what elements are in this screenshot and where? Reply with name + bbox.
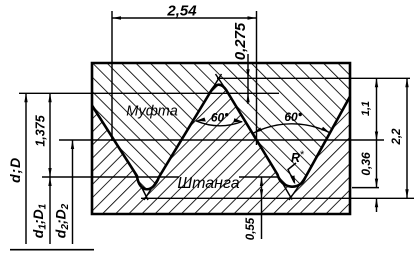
- degree dot right: [299, 113, 302, 116]
- arrow 0,275 lower: [246, 93, 249, 102]
- svg-text:Муфта: Муфта: [126, 104, 178, 120]
- dimension 0,36 tail lower: [376, 198, 378, 212]
- svg-text:0,275: 0,275: [232, 22, 249, 60]
- arrow 0,55 upper: [260, 177, 263, 186]
- svg-text:1,1: 1,1: [360, 101, 372, 116]
- svg-text:60: 60: [211, 111, 225, 125]
- arrow 0,36 lower: [375, 198, 378, 207]
- svg-text:d;D: d;D: [7, 157, 23, 183]
- svg-text:*: *: [300, 149, 305, 161]
- thread profile thick outline: [92, 85, 350, 190]
- svg-text:0,55: 0,55: [245, 217, 257, 240]
- arrow 2,54 right: [248, 16, 257, 20]
- arrow 60 deg right arc right end: [321, 127, 329, 133]
- wire right groove apex flank extension right: [289, 175, 307, 200]
- svg-text:2,54: 2,54: [166, 3, 197, 20]
- dimension d;D line: [25, 93, 27, 244]
- arrow 60 deg right arc left end: [254, 127, 263, 133]
- arrow 2,2 bottom: [405, 189, 408, 198]
- node pitch line d2;D2 level: [59, 139, 384, 141]
- arrow d;D: [24, 93, 27, 102]
- arrow 1,1 bottom: [375, 132, 378, 141]
- node root truncation line d1;D1 level right part: [239, 176, 278, 178]
- wire left groove apex flank extension right: [144, 173, 162, 200]
- dimension 1,375 and d1;D1 shared line: [49, 93, 51, 244]
- arrow 60 deg left arc right end: [233, 118, 242, 122]
- degree dot left: [225, 113, 228, 116]
- arrow 2,54 left: [112, 16, 121, 20]
- wire mid tooth apex flank extension left: [208, 74, 222, 97]
- wire mid tooth apex flank extension right: [216, 74, 229, 94]
- svg-text:2,2: 2,2: [391, 128, 403, 146]
- arrow 1,1 top: [375, 78, 378, 87]
- wire left groove apex flank extension left: [134, 172, 148, 200]
- dimension 2,54 right extension line: [256, 11, 258, 145]
- node sharp root line: [141, 197, 414, 199]
- node crest flat line d;D level: [19, 92, 279, 94]
- arrow 0,275 upper: [246, 69, 249, 78]
- svg-text:Штанга: Штанга: [177, 175, 239, 192]
- arrow 1,375 bottom: [48, 168, 51, 177]
- angle arc 60 deg right: [254, 124, 330, 133]
- coupling body Муфта hatched section: [92, 63, 350, 189]
- wire right groove apex flank extension left: [276, 171, 293, 200]
- svg-text:0,36: 0,36: [359, 152, 373, 176]
- dimension 2,2 line: [406, 78, 408, 198]
- arrow 0,36 upper: [375, 179, 378, 188]
- rod block outline: [92, 97, 350, 215]
- angle arc 60 deg left: [196, 121, 242, 126]
- arrow R leader: [291, 175, 296, 184]
- coupling block outline: [92, 63, 350, 106]
- arrow 0,55 lower: [260, 189, 263, 198]
- node thread axis centerline: [10, 249, 94, 251]
- node root arc bottom tangent line: [352, 187, 379, 189]
- node sharp crest line: [217, 77, 410, 79]
- node root truncation line d1;D1 level left part: [42, 176, 179, 178]
- arrow 1,375 top: [48, 93, 51, 102]
- svg-text:R: R: [291, 151, 300, 165]
- dimension d2;D2 line: [72, 140, 74, 244]
- svg-text:1,375: 1,375: [34, 114, 48, 146]
- dimension 0,55 line: [261, 177, 263, 239]
- dimension 1,1 and 0,36 shared line upper: [376, 78, 378, 187]
- arrow 60 deg left arc left end: [196, 118, 206, 122]
- arrow d1;D1: [48, 177, 51, 186]
- dimension 0,275 line: [247, 54, 249, 104]
- dimension 2,54 line: [112, 17, 257, 19]
- svg-text:60: 60: [284, 110, 298, 124]
- dimension 2,54 left extension line: [111, 11, 113, 141]
- arrow d2;D2: [71, 140, 74, 149]
- rod body Штанга hatched section: [92, 85, 350, 214]
- radius R leader line: [288, 163, 296, 183]
- arrow 2,2 top: [405, 78, 408, 87]
